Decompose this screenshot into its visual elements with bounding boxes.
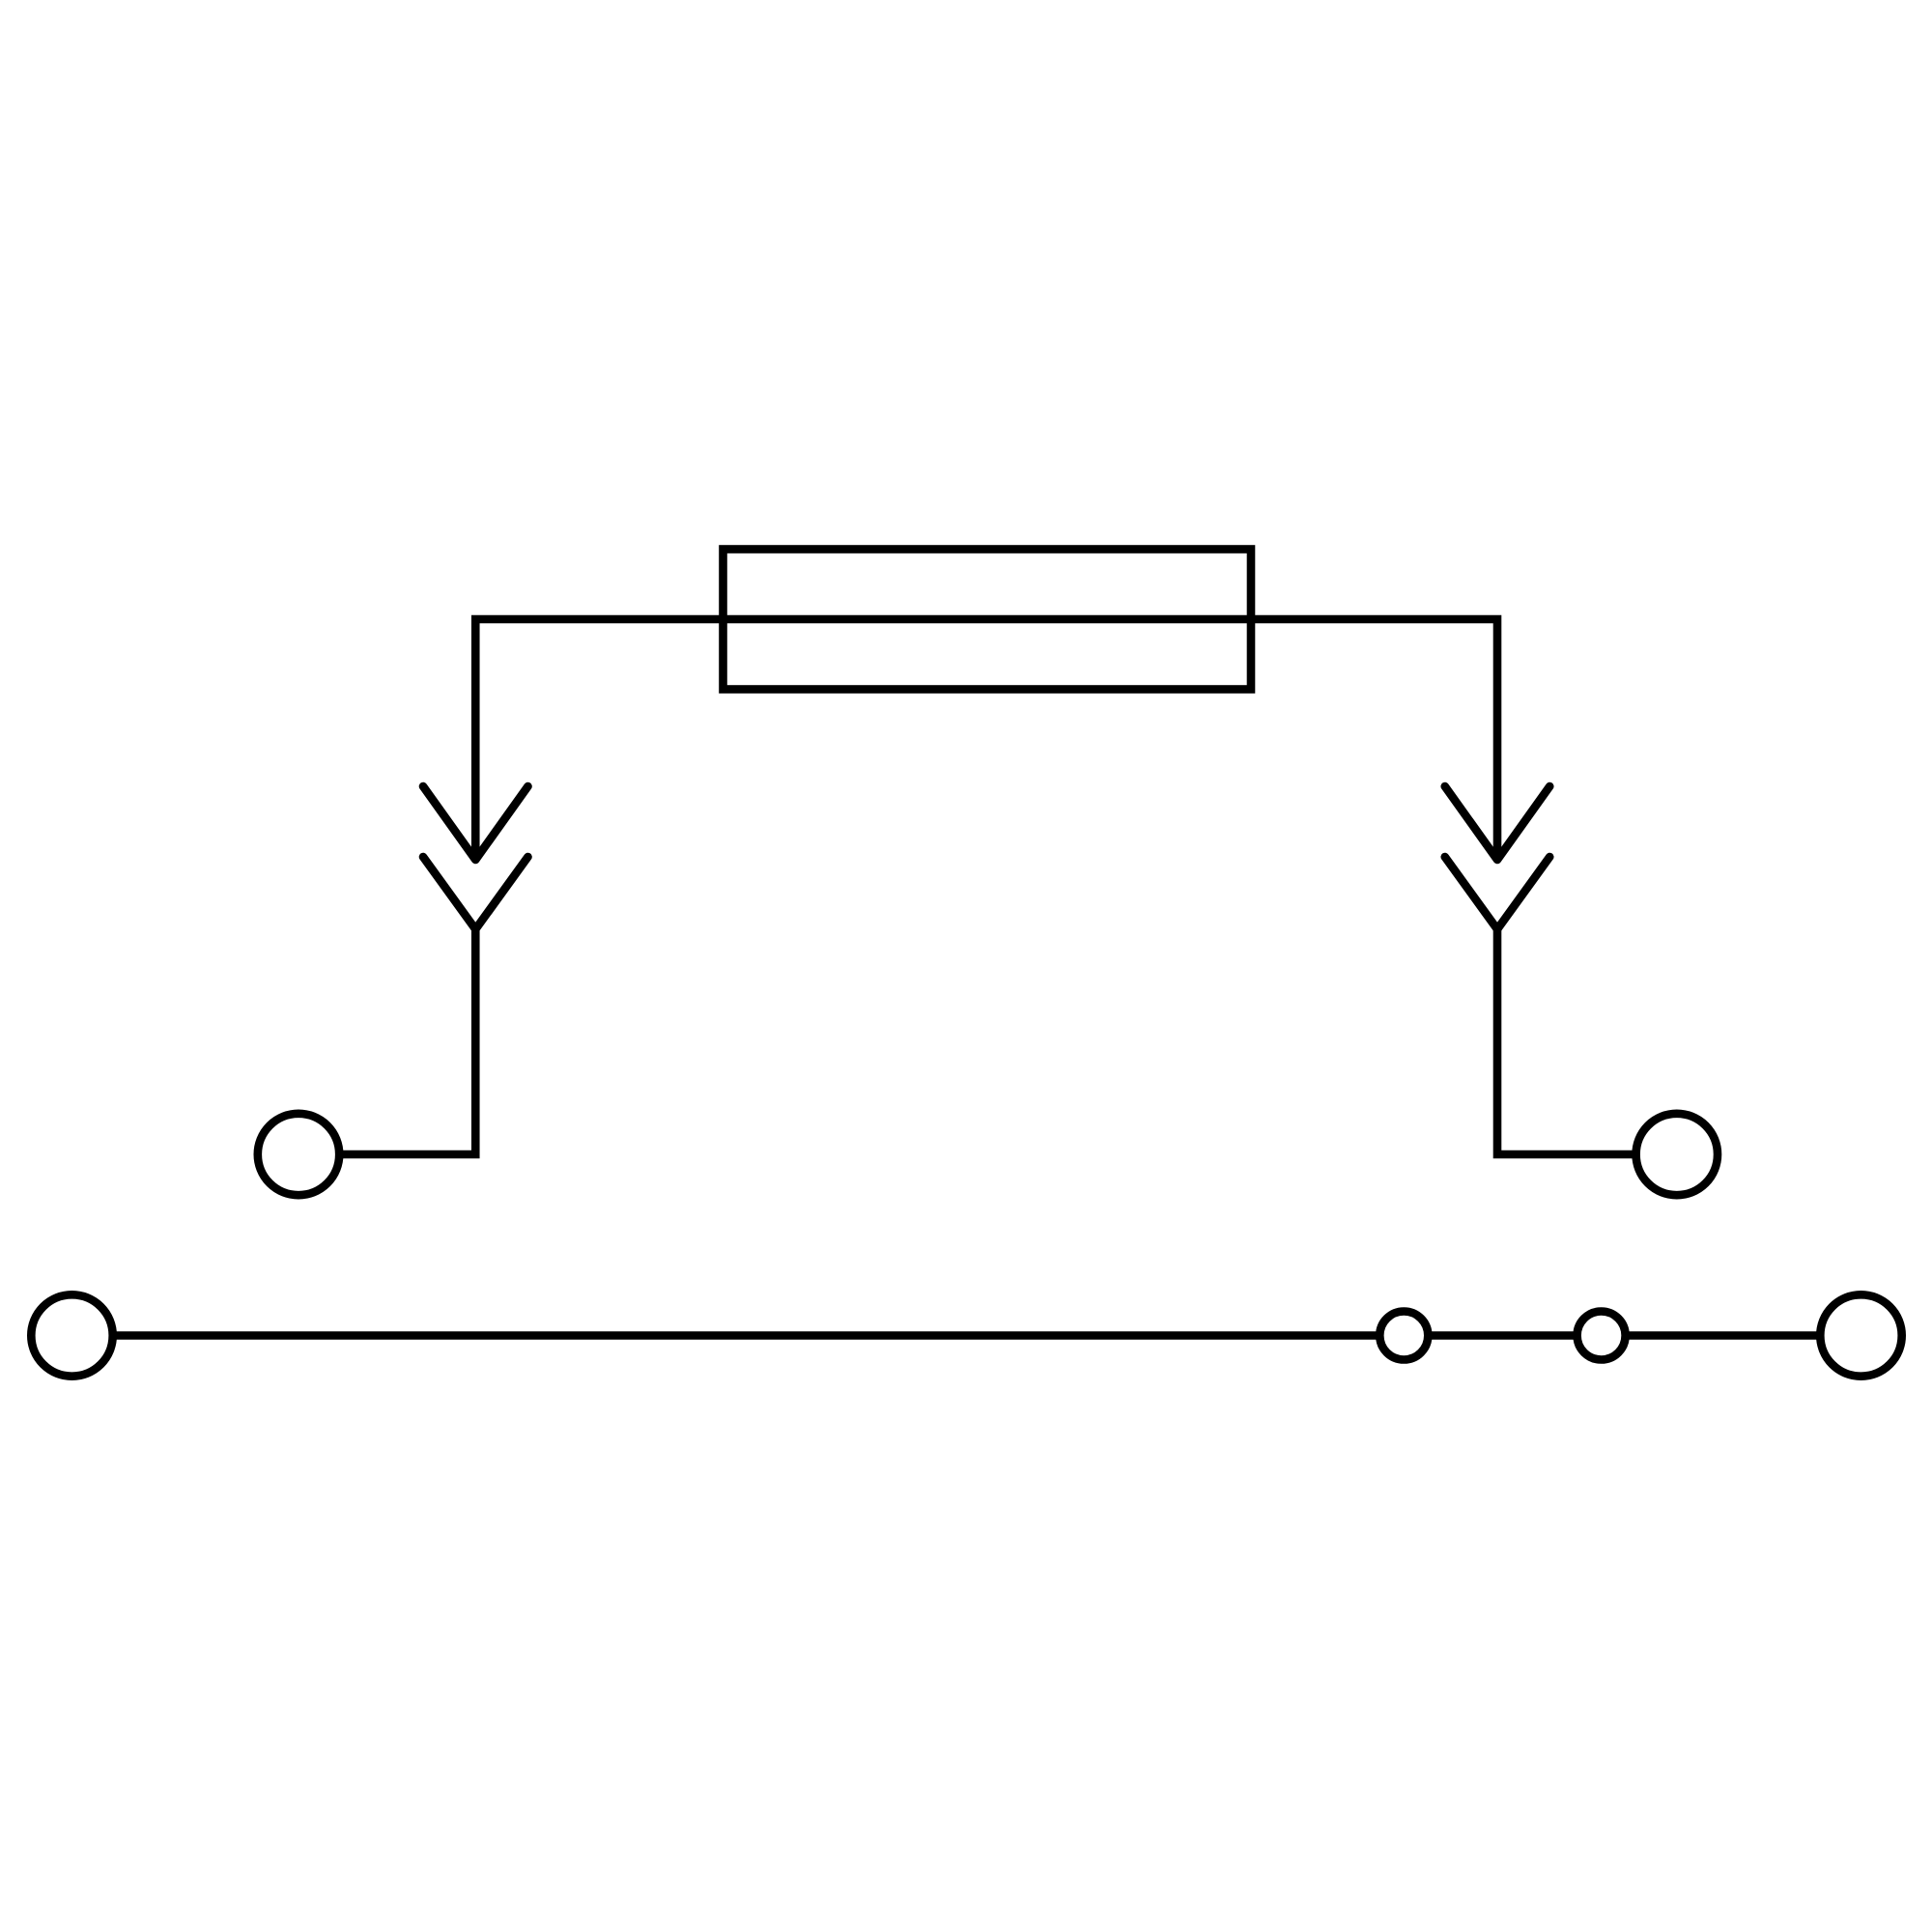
disconnect arrow right, upper chevron [1445, 786, 1550, 860]
node: bottom rail contact 2 [1577, 1312, 1626, 1360]
terminal: bottom rail right clamp [1820, 1294, 1901, 1376]
wire: bottom rail segment 3 [1626, 1331, 1820, 1340]
fuse F1 [724, 550, 1252, 690]
disconnect arrow left, lower chevron [423, 857, 528, 929]
wire: bottom rail segment 2 [1429, 1331, 1577, 1340]
terminal: left fuse-side clamp [258, 1114, 339, 1195]
wire: right drop to right terminal [1497, 929, 1636, 1154]
disconnect arrow right, lower chevron [1445, 857, 1550, 929]
terminal: bottom rail left clamp [31, 1294, 112, 1376]
disconnect arrow left, upper chevron [423, 786, 528, 860]
wire: bottom rail segment 1 [110, 1331, 1378, 1340]
terminal: right fuse-side clamp [1636, 1114, 1718, 1195]
wire: left drop, top rail through fuse, right drop [475, 619, 1497, 860]
wire: left drop to left terminal [339, 929, 475, 1154]
node: bottom rail contact 1 [1379, 1312, 1428, 1360]
